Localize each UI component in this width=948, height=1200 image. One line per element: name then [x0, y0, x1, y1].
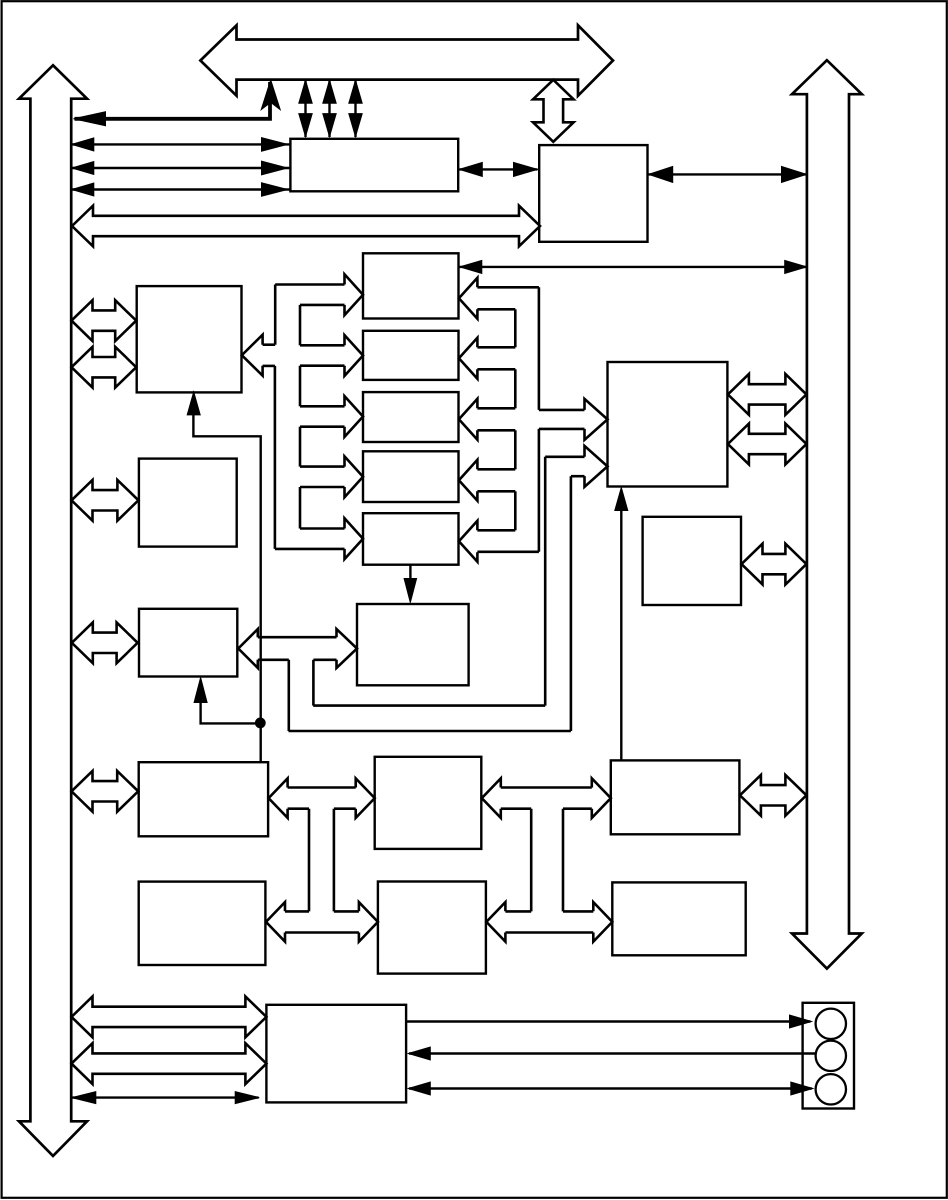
box D4 (stack 4) [363, 451, 459, 502]
ladder right inner vertical [562, 809, 565, 912]
arrowhead right row 2 at B1 [262, 161, 288, 175]
open arrowhead into C right [242, 335, 263, 376]
J-K arrow bottom shaft left [288, 807, 309, 810]
wire B1 to B2 [459, 168, 537, 170]
E input 1 top shaft [539, 409, 585, 412]
left comb D1 bottom shaft [300, 304, 345, 307]
bus channel inner vertical left [312, 660, 315, 706]
open arrowhead into N left [359, 902, 378, 942]
arrowhead left into P (row 3) [408, 1082, 430, 1095]
arrowhead at D1 right [460, 260, 482, 273]
wire row 3 bus to B1 [73, 188, 290, 190]
arrowhead at B2 left [514, 162, 538, 176]
wire D5 to I [409, 565, 411, 580]
arrowhead right into connector 3 [791, 1082, 813, 1095]
connector circle 2 [816, 1041, 846, 1071]
vertical double arrow 3 stem [354, 81, 356, 137]
left comb D3 bottom shaft [300, 425, 345, 428]
open arrow E to right bus lower [728, 424, 807, 465]
open arrowhead into L left [592, 778, 611, 818]
left comb D4 bottom shaft [300, 486, 345, 489]
box K (middle row4) [375, 757, 482, 849]
E input 2 bottom shaft [571, 475, 585, 478]
H-I arrow top shaft [258, 636, 337, 639]
right comb D2 bottom shaft [477, 368, 515, 371]
right comb D5 top shaft [477, 529, 515, 532]
right comb D2 top shaft [477, 346, 515, 349]
wire B2 to right bus [649, 173, 807, 175]
open arrowhead into E input 1 [585, 399, 608, 440]
top bus (horizontal double open arrow) [200, 25, 613, 95]
open arrowhead into D3 right [459, 399, 478, 440]
left comb vertical x300 b [299, 366, 302, 407]
right comb D3 top shaft [477, 407, 515, 410]
bold arrowhead up [261, 80, 280, 110]
open arrowhead into H right [238, 629, 257, 668]
wire junction to H bottom [201, 701, 261, 723]
arrowhead up into H bottom [194, 678, 207, 703]
medium open arrow bus to B2 (below B1) [72, 206, 540, 247]
right comb riser to E upper [538, 287, 541, 410]
arrowhead left into P (row 2) [408, 1047, 430, 1060]
box B1 (top middle) [290, 139, 458, 192]
vertical double arrow 1 down head [299, 114, 312, 137]
N-O arrow bottom shaft [505, 931, 593, 934]
open arrowhead into I left [337, 629, 358, 668]
box D5 (stack 5) [363, 513, 459, 565]
right comb D1 bottom shaft [477, 308, 515, 311]
wire D1 to right bus [460, 266, 807, 268]
open arrowhead into E input 2 [585, 446, 608, 487]
open arrow bus-H [72, 622, 138, 663]
right comb D4 top shaft [477, 468, 515, 471]
M-N arrow top shaft right [334, 910, 359, 913]
open arrowhead into D5 left [345, 518, 364, 559]
bus channel outer vertical [570, 476, 573, 731]
box H (left small) [139, 609, 237, 677]
bold arrow wire (bus to top-bus) [75, 82, 271, 119]
left comb D2 top shaft [300, 344, 345, 347]
open arrow E to right bus upper [728, 374, 807, 415]
box N (middle row5) [378, 882, 486, 974]
ladder left outer vertical [308, 809, 311, 912]
K-L arrow bottom shaft right [563, 807, 592, 810]
arrowhead right into connector 1 [790, 1015, 812, 1028]
left comb C bottom shaft [263, 365, 275, 368]
box L (right row4) [611, 760, 740, 834]
left comb D2 bottom shaft [300, 364, 345, 367]
N-O arrow top shaft left [505, 910, 531, 913]
vertical double arrow 3 down head [349, 114, 362, 137]
left comb D4 top shaft [300, 465, 345, 468]
arrowhead left row 2 [72, 162, 94, 175]
open arrowhead into D2 left [345, 335, 364, 376]
arrowhead at B1 right [459, 162, 482, 176]
J-K arrow top shaft [288, 786, 356, 789]
open arrow bus-C lower [72, 347, 137, 388]
arrowhead at B2 right [649, 166, 673, 182]
box D2 (stack 2) [363, 331, 459, 380]
vertical open arrow top-bus to box B2 [533, 80, 574, 142]
wire L to E [620, 510, 622, 761]
open arrowhead into D1 left [345, 274, 364, 315]
bus channel inner vertical [544, 457, 547, 706]
arrowhead left row 3 [72, 183, 94, 196]
open arrow bus to P upper [72, 997, 267, 1038]
box I (middle) [357, 604, 469, 685]
connector circle 3 [816, 1074, 846, 1104]
right comb D3 bottom shaft [477, 429, 515, 432]
vertical double arrow 1 up head [299, 80, 312, 103]
open arrowhead into M right [266, 902, 285, 942]
ladder left inner vertical [333, 809, 336, 912]
open arrowhead into K right [482, 778, 501, 818]
E input 1 bottom shaft [539, 428, 585, 431]
M-N arrow top shaft left [285, 910, 309, 913]
bus channel outer horizontal [289, 730, 571, 733]
right comb D1 top shaft [477, 286, 539, 289]
open arrowhead into D5 right [459, 521, 478, 562]
right comb D5 bottom shaft [477, 550, 539, 553]
open arrow L to right bus [740, 775, 807, 816]
open arrowhead into D2 right [459, 338, 478, 379]
wire bus to P bottom row [73, 1096, 259, 1098]
H-I arrow bottom shaft right [313, 658, 336, 661]
box J (left row4) [139, 762, 268, 836]
left comb D1 top shaft [275, 283, 344, 286]
box C (left large) [137, 286, 242, 392]
bus channel outer vertical left [287, 660, 290, 731]
open arrow bus to P lower [72, 1043, 267, 1084]
arrowhead up into E bottom [615, 488, 628, 511]
arrowhead right (P bottom row) [235, 1092, 259, 1104]
wire C bottom feedback [193, 415, 260, 763]
box B2 (top right) [539, 145, 647, 242]
system bus right (vertical double open arrow) [792, 60, 862, 968]
box E (right large) [608, 362, 728, 487]
K-L arrow top shaft [501, 786, 592, 789]
open arrowhead into J right [269, 778, 288, 818]
open arrow bus-J [72, 771, 139, 812]
open arrow bus-C upper [72, 300, 137, 341]
connector circle 1 [816, 1009, 846, 1039]
arrowhead at right bus (D1 row) [785, 260, 807, 273]
box D3 (stack 3) [363, 392, 459, 442]
right comb U vertical 4 [514, 491, 517, 530]
box P (bottom) [266, 1005, 406, 1103]
box M (left row5) [139, 882, 266, 965]
bus channel inner horizontal [313, 704, 545, 707]
vertical double arrow 2 up head [323, 80, 336, 103]
left comb D5 top shaft [300, 527, 345, 530]
arrowhead right row 1 at B1 [262, 138, 288, 152]
left comb vertical x275 lower [274, 366, 277, 549]
left comb vertical x300 d [299, 487, 302, 529]
wire row 2 bus to B1 [73, 167, 290, 169]
K-L arrow bottom shaft left [501, 807, 531, 810]
vertical double arrow 1 stem [304, 81, 306, 137]
arrowhead down into I top [404, 579, 417, 603]
left comb C top shaft [263, 343, 276, 346]
arrowhead left (P bottom row) [72, 1092, 96, 1104]
J-K arrow bottom shaft right [334, 807, 356, 810]
H-I arrow bottom shaft left [258, 658, 289, 661]
arrowhead up into C bottom [187, 392, 200, 415]
right comb D4 bottom shaft [477, 490, 515, 493]
left comb D3 top shaft [300, 405, 345, 408]
box G (left middle) [139, 459, 237, 547]
junction dot [255, 718, 266, 729]
open arrowhead into D4 right [459, 460, 478, 501]
vertical double arrow 2 stem [328, 81, 330, 137]
ladder right outer vertical [530, 809, 533, 912]
arrowhead left row 1 [72, 138, 94, 151]
open arrowhead into D1 right [459, 278, 478, 319]
right comb U vertical 2 [514, 369, 517, 408]
wire P to connector 1 [407, 1020, 811, 1022]
right comb riser to E lower [538, 429, 541, 552]
vertical double arrow 3 up head [349, 80, 362, 103]
open arrowhead into O left [593, 902, 612, 942]
wire row 1 bus to B1 [73, 143, 290, 145]
open arrow F to right bus [742, 544, 807, 585]
wire P to connector 3 [409, 1087, 812, 1089]
left comb vertical x300 a [299, 305, 302, 345]
open arrowhead into D3 left [345, 396, 364, 437]
M-N arrow bottom shaft [285, 931, 359, 934]
box Q (oscillator connector) [803, 1003, 854, 1109]
right comb U vertical 3 [514, 430, 517, 469]
bold arrowhead left [74, 112, 106, 126]
open arrow bus-G [72, 480, 139, 521]
E input 2 top shaft [545, 455, 584, 458]
open arrowhead into N right [486, 902, 505, 942]
N-O arrow top shaft right [563, 910, 593, 913]
open arrowhead into D4 left [345, 456, 364, 497]
box D1 (stack 1) [363, 253, 459, 318]
left comb vertical x300 c [299, 427, 302, 467]
box F (below E) [643, 517, 741, 605]
open arrowhead into K left [356, 778, 375, 818]
right comb U vertical 1 [514, 309, 517, 347]
arrowhead right row 3 at B1 [262, 183, 288, 196]
box O (right row5) [612, 882, 745, 955]
vertical double arrow 2 down head [323, 114, 336, 137]
arrowhead at right bus (B2 row) [782, 166, 807, 182]
system bus left (vertical double open arrow) [19, 65, 87, 1156]
left comb D5 bottom shaft [275, 548, 345, 551]
left comb vertical x275 upper [274, 285, 277, 345]
wire P to connector 2 [409, 1052, 816, 1054]
